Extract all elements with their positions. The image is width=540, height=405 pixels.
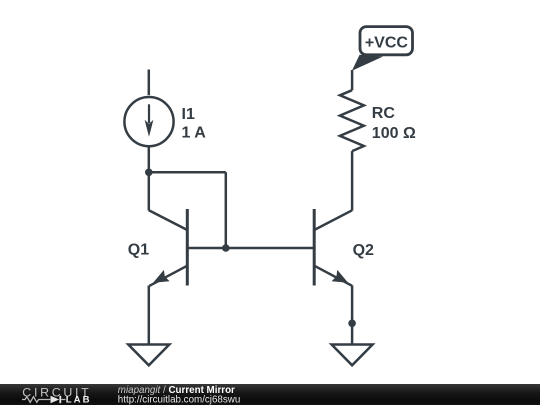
ground (left) — [128, 345, 169, 366]
svg-text:1 A: 1 A — [182, 125, 207, 142]
wire: Q1 emitter to ground — [148, 286, 151, 345]
CircuitLab logo — [22, 385, 92, 405]
transistor Q1 — [149, 209, 188, 286]
wire: resistor to Q2 collector corner — [351, 151, 354, 210]
svg-text:+VCC: +VCC — [365, 35, 409, 52]
wire: flag to resistor — [351, 70, 354, 90]
svg-text:LAB: LAB — [66, 395, 92, 405]
wire: stub above I1 — [148, 70, 151, 96]
transistor Q2 — [314, 209, 352, 286]
node: junction on base wire — [222, 244, 230, 252]
credit text — [118, 385, 241, 405]
node: junction below I1 — [145, 169, 153, 177]
current source I1 — [124, 97, 173, 146]
svg-text:http://circuitlab.com/cj68swu: http://circuitlab.com/cj68swu — [118, 395, 241, 405]
resistor RC — [340, 90, 364, 151]
wire: I1 bottom to Q1 collector corner — [148, 147, 151, 211]
svg-text:I1: I1 — [182, 106, 195, 123]
svg-text:Q2: Q2 — [353, 242, 374, 259]
svg-text:Q1: Q1 — [128, 241, 149, 258]
svg-text:100 Ω: 100 Ω — [372, 125, 416, 142]
wire: horizontal branch to base feedback — [149, 171, 226, 174]
svg-text:RC: RC — [372, 105, 396, 122]
node: terminal on Q2 emitter wire — [348, 320, 356, 328]
wire: vertical drop to base net — [225, 172, 228, 248]
footer bar — [0, 384, 540, 405]
power flag +VCC — [352, 27, 413, 71]
ground (right) — [332, 345, 373, 366]
wire: shared base wire — [187, 247, 314, 250]
wire: Q2 emitter to ground — [351, 286, 354, 345]
